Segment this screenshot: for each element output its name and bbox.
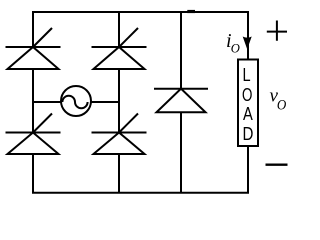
svg-text:D: D bbox=[243, 124, 254, 144]
wire: top rail from left branch to load branch bbox=[33, 12, 248, 60]
arrow head of output current io bbox=[243, 37, 252, 50]
wire: left branch middle segment (between thyristors) bbox=[32, 69, 34, 133]
junction dot on top rail near diode branch bbox=[187, 10, 195, 13]
wire: middle branch bottom segment bbox=[118, 154, 120, 192]
AC source vs circle bbox=[61, 86, 91, 116]
svg-text:L: L bbox=[243, 65, 251, 85]
wire: middle branch middle segment (between thyristors) bbox=[118, 69, 120, 133]
thyristor T4 (bottom-left) bbox=[6, 114, 61, 155]
thyristor T1 (top-left) bbox=[6, 28, 61, 69]
thyristor T3 (top-middle) bbox=[92, 28, 147, 69]
svg-text:O: O bbox=[231, 42, 240, 56]
wire: source right lead bbox=[91, 101, 119, 103]
plus sign (output polarity) bbox=[267, 21, 287, 41]
load box bbox=[238, 60, 258, 147]
wire: source left lead bbox=[33, 101, 61, 103]
minus sign (output polarity) bbox=[266, 163, 288, 165]
wire: freewheeling diode branch top segment bbox=[180, 12, 182, 89]
svg-text:O: O bbox=[242, 85, 252, 105]
svg-text:O: O bbox=[277, 98, 287, 114]
thyristor T2 (bottom-middle) bbox=[92, 114, 147, 155]
wire: freewheeling diode branch bottom segment bbox=[180, 112, 182, 192]
wire: middle branch top segment bbox=[118, 12, 120, 47]
freewheeling diode Dm bbox=[154, 89, 208, 113]
svg-text:A: A bbox=[243, 104, 253, 124]
load text bbox=[242, 65, 253, 144]
wire: bottom rail from left branch to load branch bbox=[33, 146, 248, 193]
AC source vs sine wave bbox=[62, 96, 87, 109]
